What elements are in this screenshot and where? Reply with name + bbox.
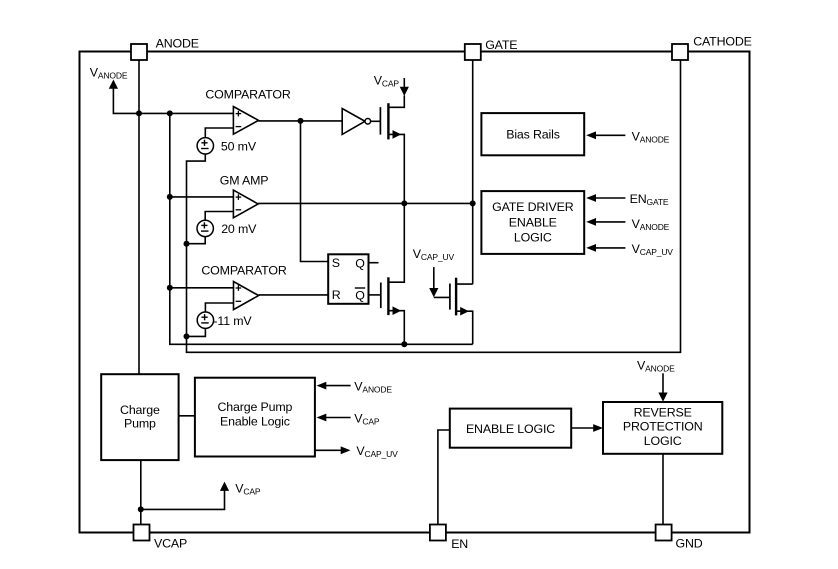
svg-text:-11 mV: -11 mV: [213, 314, 252, 328]
svg-text:VCAP: VCAP: [154, 537, 187, 551]
svg-text:Q: Q: [355, 256, 365, 270]
svg-text:50 mV: 50 mV: [221, 139, 257, 153]
svg-text:GATE DRIVER: GATE DRIVER: [492, 200, 574, 214]
svg-text:PROTECTION: PROTECTION: [623, 420, 703, 434]
svg-text:VCAP_UV: VCAP_UV: [356, 444, 398, 459]
svg-text:ENABLE LOGIC: ENABLE LOGIC: [466, 422, 555, 436]
svg-text:Charge Pump: Charge Pump: [217, 400, 292, 414]
svg-text:LOGIC: LOGIC: [514, 231, 552, 245]
svg-text:ENGATE: ENGATE: [630, 192, 669, 207]
svg-text:VCAP_UV: VCAP_UV: [632, 242, 674, 257]
svg-text:VANODE: VANODE: [632, 217, 670, 232]
svg-text:VCAP_UV: VCAP_UV: [413, 247, 455, 262]
svg-text:Bias Rails: Bias Rails: [506, 128, 560, 142]
svg-text:LOGIC: LOGIC: [644, 434, 682, 448]
svg-text:ANODE: ANODE: [156, 37, 199, 51]
svg-text:GM AMP: GM AMP: [220, 173, 269, 187]
svg-text:Charge: Charge: [120, 403, 160, 417]
svg-text:REVERSE: REVERSE: [634, 406, 692, 420]
svg-text:GATE: GATE: [485, 38, 517, 52]
svg-text:COMPARATOR: COMPARATOR: [201, 264, 286, 278]
svg-text:20 mV: 20 mV: [221, 222, 257, 236]
svg-text:Pump: Pump: [124, 417, 156, 431]
svg-text:S: S: [332, 256, 340, 270]
svg-text:CATHODE: CATHODE: [693, 35, 752, 49]
svg-text:VANODE: VANODE: [354, 379, 392, 394]
svg-text:COMPARATOR: COMPARATOR: [205, 87, 290, 101]
svg-text:Enable Logic: Enable Logic: [220, 415, 290, 429]
svg-text:VCAP: VCAP: [354, 411, 380, 426]
svg-text:VANODE: VANODE: [637, 358, 675, 373]
svg-text:R: R: [332, 288, 341, 302]
svg-text:VANODE: VANODE: [90, 65, 128, 80]
svg-text:VCAP: VCAP: [374, 73, 400, 88]
svg-text:Q: Q: [355, 288, 365, 302]
svg-text:VANODE: VANODE: [632, 129, 670, 144]
svg-text:ENABLE: ENABLE: [509, 215, 557, 229]
svg-text:GND: GND: [676, 537, 703, 551]
svg-text:EN: EN: [451, 537, 468, 551]
svg-text:VCAP: VCAP: [235, 482, 261, 497]
